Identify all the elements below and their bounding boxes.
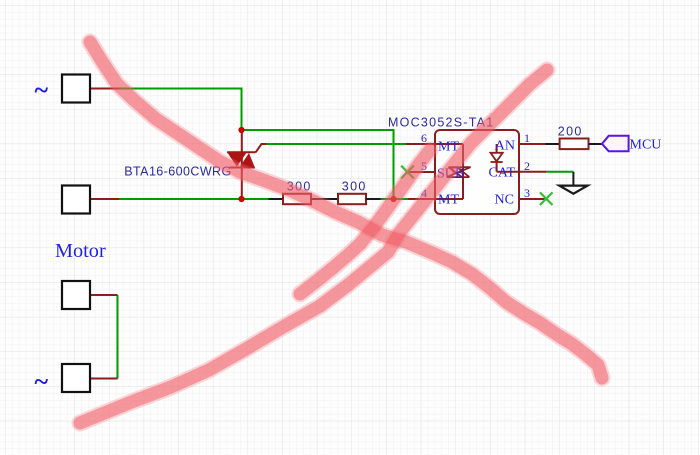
resistor R2 lead right bbox=[366, 198, 381, 200]
U1 internal LED cathode bar bbox=[491, 161, 503, 163]
wire W5 node B to resistor R1 bbox=[242, 198, 270, 200]
wire W2 from node A to node C bbox=[242, 130, 394, 199]
svg-text:NC: NC bbox=[495, 193, 514, 208]
triac Q1 lower triangle bbox=[239, 153, 255, 168]
U1 internal LED cathode lead bbox=[497, 162, 519, 172]
connector P4 pin lead bbox=[90, 378, 118, 380]
resistor R2 body bbox=[338, 194, 366, 204]
U1 internal LED triangle bbox=[491, 153, 503, 162]
connector P3 pin lead bbox=[90, 294, 118, 296]
U1 pin 5 lead bbox=[408, 171, 435, 173]
svg-text:~: ~ bbox=[35, 76, 49, 105]
triac Q1 bottom bar bbox=[229, 167, 254, 169]
node C junction dot bbox=[390, 196, 396, 202]
wire black pin1 to R3 bbox=[546, 143, 561, 145]
U1 internal triac diagonal 1 bbox=[449, 167, 463, 177]
triac Q1 gate lead bbox=[256, 144, 267, 152]
U1 pin 3 lead bbox=[519, 198, 546, 200]
wire W6 resistor R2 to node C bbox=[380, 198, 394, 200]
svg-text:200: 200 bbox=[558, 125, 583, 139]
no-connect X at pin 3 bbox=[540, 192, 553, 205]
red X mark stroke A (top-left to bottom-right) bbox=[90, 42, 602, 378]
wire W8 pin 2 to ground bbox=[546, 171, 573, 173]
svg-text:1: 1 bbox=[524, 131, 530, 145]
ground stem bbox=[572, 172, 574, 186]
U1 internal top rail bbox=[435, 143, 463, 145]
red X mark stroke B2 (second steep stroke through node C junction) bbox=[300, 150, 430, 294]
svg-text:3: 3 bbox=[524, 186, 530, 200]
U1 internal triac diagonal 3 bbox=[457, 167, 469, 177]
wire black between R1 and R2 bbox=[311, 198, 338, 200]
wire W4 from connector P2 to node B bbox=[118, 198, 242, 200]
wire black R3 to MCU flag bbox=[589, 143, 603, 145]
connector P2 pin lead bbox=[90, 198, 119, 200]
red X mark stroke B1 (top-right cap, bends at crossing, to bottom-left cap) bbox=[80, 70, 547, 423]
svg-text:CAT: CAT bbox=[489, 166, 516, 181]
U1 pin 6 lead bbox=[406, 143, 435, 145]
triac Q1 upper triangle bbox=[227, 152, 247, 166]
svg-text:300: 300 bbox=[342, 180, 367, 194]
resistor R3 body bbox=[560, 139, 589, 150]
U1 internal triac top bar bbox=[449, 166, 471, 168]
connector P3 box bbox=[62, 281, 90, 309]
wire W7 node C to pin 4 bbox=[394, 198, 408, 200]
ground triangle bbox=[559, 186, 587, 194]
U1 pin 2 lead bbox=[519, 171, 546, 173]
wire W9 motor connector link vertical bbox=[117, 295, 119, 379]
wire W3 triac gate to pin 6 bbox=[266, 143, 406, 145]
U1 internal triac bottom bar bbox=[447, 176, 470, 178]
node B junction dot bbox=[238, 196, 244, 202]
triac Q1 main vertical lead bbox=[241, 130, 243, 199]
svg-text:AN: AN bbox=[495, 139, 515, 154]
connector P4 box bbox=[62, 364, 90, 392]
svg-text:MCU: MCU bbox=[630, 138, 662, 153]
resistor R1 lead left bbox=[269, 198, 284, 200]
resistor R1 body bbox=[283, 194, 311, 204]
node A junction dot bbox=[238, 127, 244, 133]
connector P2 box bbox=[62, 186, 90, 214]
svg-text:Motor: Motor bbox=[55, 240, 106, 262]
net flag MCU bbox=[602, 136, 629, 151]
U1 pin 1 lead bbox=[519, 143, 546, 145]
svg-text:~: ~ bbox=[35, 367, 49, 396]
U1 internal triac vertical bbox=[462, 144, 464, 199]
triac Q1 top bar bbox=[227, 151, 256, 153]
U1 internal LED anode lead bbox=[496, 144, 498, 153]
connector P1 pin lead bbox=[90, 88, 119, 90]
opto-triac U1 body bbox=[435, 130, 519, 214]
U1 internal bottom rail bbox=[435, 198, 463, 200]
wire W1 from connector P1 to node A bbox=[118, 89, 242, 131]
svg-text:2: 2 bbox=[524, 159, 530, 173]
svg-text:MT: MT bbox=[438, 193, 459, 208]
U1 pin 4 lead bbox=[408, 198, 435, 200]
U1 internal triac diagonal 2 bbox=[447, 167, 471, 177]
no-connect X at pin 5 bbox=[401, 166, 414, 179]
connector P1 box bbox=[62, 75, 90, 103]
